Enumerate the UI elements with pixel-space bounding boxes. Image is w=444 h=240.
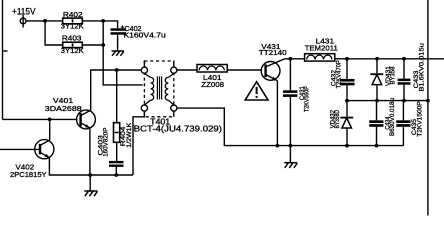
inductor L401 (197, 65, 227, 73)
svg-text:160V820P: 160V820P (103, 127, 110, 157)
wire V402 emitter to rail (49, 158, 133, 175)
inductor L431 (305, 54, 335, 61)
wire C433 top (403, 59, 405, 79)
svg-text:1/2W1K: 1/2W1K (126, 122, 133, 148)
svg-text:BY358: BY358 (390, 66, 397, 84)
T401 primary winding (144, 74, 153, 105)
svg-text:BCT-4(JU4.739.029): BCT-4(JU4.739.029) (134, 123, 223, 133)
wire R402 right to rail (82, 20, 103, 22)
resistor R402 (63, 18, 83, 24)
T401 secondary winding (165, 74, 174, 105)
T401 pin stubs (144, 61, 173, 117)
node A junction (43, 19, 47, 23)
node I junction (276, 144, 280, 148)
svg-text:ZZ008: ZZ008 (201, 80, 224, 89)
far right vertical wire (427, 0, 429, 216)
node O junction (375, 99, 379, 103)
svg-text:2PC1815Y: 2PC1815Y (10, 170, 47, 179)
ground (C402) (112, 51, 125, 56)
svg-text:B1.6KV0.015u: B1.6KV0.015u (419, 43, 426, 92)
node C junction (101, 43, 105, 47)
ground (emitter rail) (84, 191, 97, 196)
svg-text:TT2140: TT2140 (259, 48, 287, 57)
top rail after L431 (335, 58, 444, 60)
node R junction (345, 144, 349, 148)
wire V402 base (0, 148, 40, 150)
transformer T401 shield box (144, 61, 173, 117)
svg-text:BY358D: BY358D (334, 110, 341, 129)
capacitor C402 (111, 28, 127, 34)
wire VD431 top (376, 59, 378, 101)
svg-text:B630V0.018u: B630V0.018u (389, 98, 396, 136)
wire V401 emitter down (89, 128, 91, 175)
polarity + mark (121, 25, 124, 28)
wire gnd stub (89, 175, 91, 191)
wire R404 tap down (116, 70, 118, 123)
wire C432 top (346, 59, 348, 79)
T401 terminal pins (141, 67, 177, 111)
wire C432 bottom (346, 85, 348, 100)
wire V402 collector up (49, 119, 51, 140)
node Q junction (426, 99, 430, 103)
node B junction (101, 19, 105, 23)
wire T401 secondary bottom to rail (177, 108, 404, 146)
wire C434 top (376, 101, 378, 121)
node H junction (289, 57, 293, 61)
wire V401 base (3, 118, 81, 120)
node D junction (48, 118, 52, 122)
wire C431 to rail (289, 97, 291, 146)
node G junction (C403) (114, 173, 118, 177)
warning triangle (245, 82, 268, 100)
wire rail up to transformer (133, 112, 144, 175)
top rail from collector (285, 58, 305, 60)
diode VD431 (370, 74, 383, 84)
capacitor C435 (396, 120, 410, 126)
wire C435 top (402, 101, 404, 121)
wire L401 to V431 base (227, 69, 265, 71)
transistor V402 (35, 140, 54, 159)
node L junction (375, 57, 379, 61)
border frame left edge (2, 0, 4, 119)
node F junction (gnd) (88, 173, 92, 177)
wire rail down to shield (103, 21, 143, 85)
node P junction (402, 99, 406, 103)
middle rail (347, 100, 428, 102)
wire C435 bottom (402, 127, 404, 146)
wire C434 bottom (376, 127, 378, 146)
ground (output rail) (284, 163, 297, 168)
node +115V label (12, 6, 36, 17)
T401 core (157, 76, 161, 99)
transistor V401 (77, 110, 96, 129)
wire C431 (289, 59, 291, 91)
node E junction (R404 tap) (115, 68, 119, 72)
node K junction (345, 57, 349, 61)
svg-text:K160V4.7u: K160V4.7u (124, 31, 166, 40)
wire R404 to C403 (116, 142, 118, 161)
svg-text:T2KV560P: T2KV560P (304, 86, 311, 112)
wire C403 to rail (115, 167, 117, 175)
svg-text:R402: R402 (63, 10, 83, 19)
node J junction (289, 144, 293, 148)
svg-text:3DA2688: 3DA2688 (45, 104, 82, 113)
svg-text:3Y12K: 3Y12K (61, 46, 84, 55)
wire down to R403 (45, 21, 63, 45)
resistor R404 (114, 123, 120, 143)
capacitor C403 (109, 161, 124, 167)
wire terminal to R402 (26, 20, 63, 22)
terminal +115V (20, 15, 26, 28)
wire to C402 (103, 21, 117, 28)
wire V431 emitter down (276, 81, 278, 146)
capacitor C434 (369, 120, 383, 126)
zone tick on border (3, 50, 8, 52)
svg-text:T2KV1500P: T2KV1500P (416, 101, 423, 137)
capacitor C432 (340, 79, 355, 85)
node S junction (375, 144, 379, 148)
wire C433 bottom (403, 85, 405, 101)
wire T401 secondary top to L401 (177, 69, 197, 71)
svg-text:TEM2011: TEM2011 (305, 44, 338, 53)
wire C402 to ground (117, 35, 119, 51)
svg-text:+115V: +115V (12, 6, 36, 17)
svg-text:T2KV470P: T2KV470P (336, 60, 343, 89)
wire gnd stub right (289, 146, 291, 163)
wire R403 right to rail (82, 44, 103, 46)
transistor V431 (261, 59, 285, 81)
capacitor C431 (283, 90, 297, 97)
svg-text:R403: R403 (62, 34, 82, 43)
svg-text:3Y12K: 3Y12K (61, 21, 84, 30)
node M junction (402, 57, 406, 61)
node N junction (345, 99, 349, 103)
diode VD432 (340, 118, 353, 128)
wire V401 collector up (91, 70, 142, 110)
wire VD432 top (346, 101, 348, 146)
capacitor C433 (398, 79, 411, 85)
resistor R403 (63, 42, 83, 47)
